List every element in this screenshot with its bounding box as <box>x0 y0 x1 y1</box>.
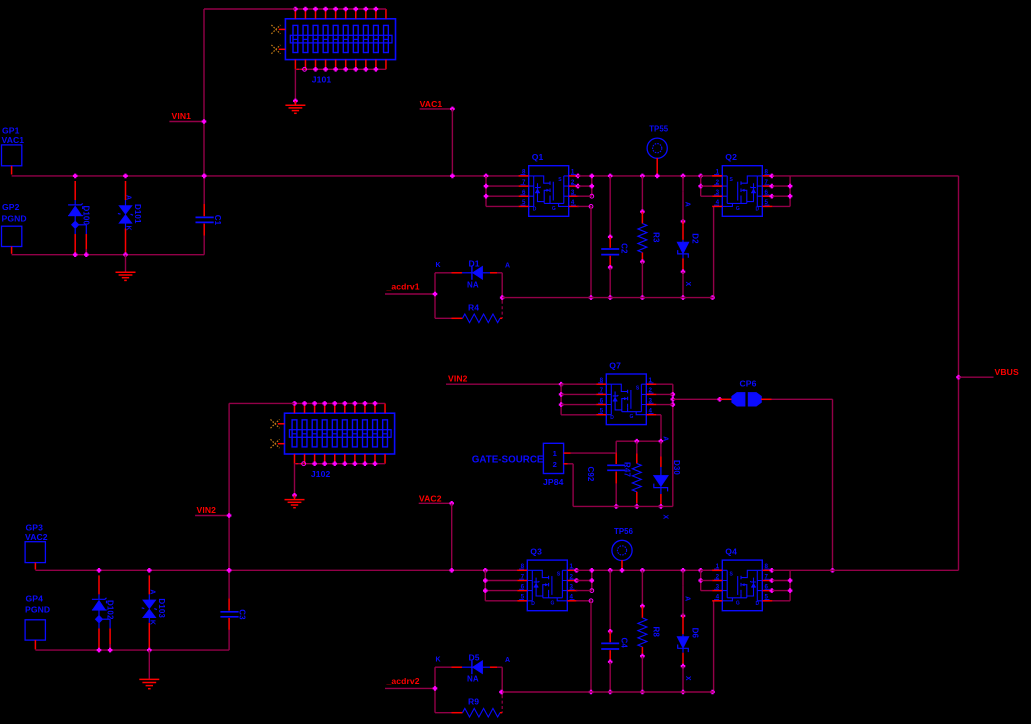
connector J101 body <box>285 19 395 60</box>
node VIN1 rail <box>202 174 207 179</box>
svg-text:D: D <box>610 415 614 421</box>
svg-text:D: D <box>756 207 760 213</box>
pins Q7 right stubs <box>646 383 656 385</box>
pins Q1 right stubs <box>569 175 579 177</box>
TVS diode D103 <box>148 575 150 594</box>
pins Q2 left stubs <box>712 175 722 177</box>
svg-text:Q7: Q7 <box>609 361 621 371</box>
wire VBUS top rail <box>790 175 958 177</box>
wire acdrv2 output rail <box>499 690 504 695</box>
wire Q1 left fan <box>485 176 487 207</box>
wire J101 bottom pin bus <box>295 68 386 70</box>
wire Q2 right fan <box>770 174 775 179</box>
resistor R8 <box>641 570 643 606</box>
gate-source network bottom rail <box>573 505 673 507</box>
zener diode D2 <box>682 176 684 191</box>
wire Q3 left fan <box>484 570 486 601</box>
pins J101 bottom stubs <box>294 60 296 70</box>
node PGND-D103 <box>147 648 152 653</box>
wire acdrv1 right vertical <box>501 273 503 301</box>
wire Q4 pin4 jog to acdrv rail <box>713 601 715 692</box>
wire Q4 right fan <box>770 568 775 573</box>
svg-text:GP1: GP1 <box>2 125 20 135</box>
wire Q2 left fan <box>698 174 703 179</box>
transistor Q4 body <box>722 560 762 611</box>
pins Q1 left stubs <box>519 175 529 177</box>
capacitor C1 <box>203 176 205 204</box>
pins Q4 left stubs <box>712 569 722 571</box>
resistor R4 <box>435 317 452 319</box>
svg-text:GP3: GP3 <box>26 523 44 533</box>
ground below D103 <box>148 650 150 679</box>
svg-text:C1: C1 <box>213 215 222 226</box>
pin wire D101 to PGND <box>125 229 127 254</box>
transistor Q1 body <box>529 166 569 217</box>
svg-text:A: A <box>505 657 510 664</box>
pin wires D102 to PGND <box>98 628 100 649</box>
pins J102 bottom stubs <box>294 454 296 464</box>
zener D6 branch <box>681 568 686 573</box>
svg-text:S: S <box>557 572 561 578</box>
resistor R8 branch <box>640 568 645 573</box>
node Q3 fan <box>483 568 488 573</box>
svg-text:G: G <box>552 206 556 212</box>
svg-text:2: 2 <box>553 460 557 469</box>
wire CP6 to lower rail <box>772 398 833 400</box>
pins J101 top stubs <box>294 9 296 19</box>
pin wire D103 to PGND <box>148 623 150 649</box>
svg-text:_acdrv2: _acdrv2 <box>386 676 420 686</box>
wire acdrv1 output rail <box>500 295 505 300</box>
wire GP4 pin to PGND rail <box>34 640 36 649</box>
node VAC1-D100 <box>73 174 78 179</box>
svg-text:J101: J101 <box>312 75 332 85</box>
wire J101 top pin bus <box>295 8 386 10</box>
wire VIN1 vertical <box>203 9 205 176</box>
svg-text:VAC1: VAC1 <box>420 99 443 109</box>
svg-text:D100: D100 <box>82 206 91 226</box>
wire D100 cathode branch <box>79 224 87 226</box>
svg-text:TP56: TP56 <box>614 527 634 536</box>
wire GP1 pin to VAC1 rail <box>11 166 13 175</box>
wire Q1 pin1 to mid rail <box>576 174 581 179</box>
svg-text:D101: D101 <box>133 204 142 224</box>
wire J102 top bus to VIN2 <box>229 402 294 404</box>
svg-text:A: A <box>148 589 155 594</box>
diode D1 <box>435 272 452 274</box>
svg-text:CP6: CP6 <box>740 379 757 389</box>
wire Q1 pin4 gate drop <box>577 205 591 207</box>
node VAC1-D101 <box>123 174 128 179</box>
wire Q2 pin4 jog to acdrv rail <box>713 206 715 297</box>
wire J101 top bus to VIN1 <box>204 8 295 10</box>
svg-text:VIN2: VIN2 <box>448 374 468 384</box>
no-connect X pins J102 <box>271 419 280 428</box>
node PGND-D100b <box>84 252 89 257</box>
TVS diode D101 <box>125 181 127 200</box>
diode D100 <box>74 181 76 200</box>
wire VAC1 label to rail <box>451 109 453 176</box>
wire GP3 pin to VAC2 rail <box>34 563 36 570</box>
ground below D101 <box>125 255 127 272</box>
svg-text:GP2: GP2 <box>2 202 20 212</box>
wire CP6 left <box>673 398 720 400</box>
wire Q1 pin3 jog <box>577 195 592 197</box>
svg-text:X: X <box>662 515 669 520</box>
wire Q3 pin2 jog <box>574 578 579 583</box>
svg-text:PGND: PGND <box>2 214 27 224</box>
wire VAC1 rail <box>12 175 529 177</box>
wire JP84 pin2 to source <box>564 463 568 465</box>
svg-text:JP84: JP84 <box>543 477 564 487</box>
node VIN2 rail <box>227 568 232 573</box>
capacitor C2 branch <box>608 174 613 179</box>
svg-text:VAC1: VAC1 <box>2 135 25 145</box>
wire VAC2 label to rail <box>451 503 453 570</box>
svg-text:D6: D6 <box>690 628 699 639</box>
svg-text:Q3: Q3 <box>530 547 542 557</box>
svg-text:K: K <box>436 262 441 269</box>
svg-text:D2: D2 <box>690 233 699 244</box>
no-connect X pins J101 <box>271 25 280 34</box>
gate-source network top rail <box>616 440 661 442</box>
svg-text:A: A <box>684 596 691 601</box>
svg-text:X: X <box>684 676 691 681</box>
wire Q3 pin4 gate drop <box>576 600 591 602</box>
pins Q4 right stubs <box>762 569 772 571</box>
resistor R47 branch <box>636 441 638 453</box>
svg-text:S: S <box>558 177 562 183</box>
svg-text:S: S <box>730 572 734 578</box>
svg-text:1: 1 <box>553 449 558 458</box>
pins Q3 right stubs <box>567 569 577 571</box>
svg-text:R8: R8 <box>652 627 661 638</box>
node PGND-D102b <box>108 648 113 653</box>
svg-text:D1: D1 <box>469 258 480 268</box>
resistor R3 branch <box>640 174 645 179</box>
svg-text:TP55: TP55 <box>649 125 669 134</box>
svg-text:K: K <box>436 656 441 663</box>
testpoint TP56 <box>612 540 632 560</box>
svg-text:D102: D102 <box>105 600 114 620</box>
pins Q2 right stubs <box>762 175 772 177</box>
capacitor C92 branch <box>615 441 617 452</box>
svg-text:X: X <box>684 282 691 287</box>
svg-text:A: A <box>684 202 691 207</box>
svg-text:Q1: Q1 <box>532 152 544 162</box>
svg-text:D: D <box>533 207 537 213</box>
wire JP84 pin1 to gate <box>564 452 571 454</box>
wire VIN2 vertical <box>228 403 230 570</box>
zener diode D6 <box>682 570 684 585</box>
svg-text:R9: R9 <box>468 697 479 707</box>
svg-text:C4: C4 <box>620 638 629 649</box>
capacitor C4 <box>609 570 611 631</box>
wire acdrv2 right vertical <box>501 667 503 695</box>
svg-text:J102: J102 <box>311 469 331 479</box>
svg-text:GP4: GP4 <box>26 594 44 604</box>
transistor Q7 body <box>606 374 646 425</box>
svg-text:S: S <box>730 177 734 183</box>
wire D102 cathode branch <box>103 618 111 620</box>
inductor CP6 <box>720 398 732 400</box>
svg-text:R4: R4 <box>468 302 479 312</box>
net label VBUS <box>956 375 961 380</box>
svg-text:D: D <box>756 601 760 607</box>
svg-text:NA: NA <box>467 675 479 684</box>
svg-text:D5: D5 <box>469 653 480 663</box>
wire J102 bottom pin bus <box>295 463 386 465</box>
svg-text:VAC2: VAC2 <box>25 532 48 542</box>
resistor R3 <box>641 176 643 212</box>
svg-text:VIN1: VIN1 <box>172 111 192 121</box>
svg-text:PGND: PGND <box>25 605 50 615</box>
diode D5 <box>435 666 452 668</box>
svg-text:G: G <box>736 600 740 606</box>
svg-text:S: S <box>636 385 640 391</box>
svg-text:Q2: Q2 <box>725 152 737 162</box>
svg-text:C3: C3 <box>238 609 247 620</box>
ground stem J102 <box>294 464 296 496</box>
svg-text:A: A <box>125 195 132 200</box>
svg-text:_acdrv1: _acdrv1 <box>386 282 420 292</box>
resistor R9 <box>435 712 452 714</box>
wire Q1 pin2 jog <box>576 184 581 189</box>
node PGND-D102a <box>97 648 102 653</box>
pins J102 top stubs <box>294 403 296 413</box>
node VAC2-D102 <box>97 568 102 573</box>
wire Q4 left fan <box>698 568 703 573</box>
wire VBUS vertical <box>958 176 960 570</box>
ground J101 <box>285 104 305 106</box>
ground J102 <box>285 499 305 501</box>
svg-text:G: G <box>630 414 634 420</box>
pin wires D100 to PGND <box>74 234 76 254</box>
pins Q3 left stubs <box>517 569 527 571</box>
svg-text:D103: D103 <box>157 598 166 618</box>
node Q1 fan <box>484 174 489 179</box>
node PGND-D100a <box>73 252 78 257</box>
node VAC2-C3 <box>227 568 232 573</box>
wire Q7 gate jog <box>656 414 661 416</box>
svg-text:R3: R3 <box>652 232 661 243</box>
pins Q7 left stubs <box>596 383 606 385</box>
svg-text:NA: NA <box>467 280 479 289</box>
node VAC2-D103 <box>147 568 152 573</box>
svg-text:G: G <box>551 600 555 606</box>
svg-text:A: A <box>661 436 668 441</box>
diode D102 <box>98 575 100 594</box>
testpoint TP55 <box>647 138 667 158</box>
svg-text:G: G <box>736 206 740 212</box>
wire acdrv1 left vertical <box>434 273 436 319</box>
connector J102 body <box>285 413 395 454</box>
svg-text:A: A <box>505 263 510 270</box>
wire VAC2 rail <box>35 569 527 571</box>
capacitor C2 <box>609 176 611 237</box>
wire PGND lower rail <box>35 649 229 651</box>
wire VBUS lower rail <box>790 569 958 571</box>
wire PGND rail <box>12 254 205 256</box>
svg-text:D30: D30 <box>672 460 681 475</box>
connector JP84 <box>543 443 563 473</box>
wire Q7 left fan <box>559 382 564 387</box>
svg-text:Q4: Q4 <box>725 547 737 557</box>
node VAC1-C1 <box>202 174 207 179</box>
wire acdrv2 left vertical <box>434 667 436 713</box>
zener D30 branch <box>660 441 662 456</box>
svg-text:D: D <box>531 601 535 607</box>
capacitor C3 <box>228 570 230 598</box>
svg-text:VAC2: VAC2 <box>419 494 442 504</box>
svg-text:C92: C92 <box>586 467 595 482</box>
transistor Q2 body <box>722 166 762 217</box>
wire GP2 pin to PGND rail <box>11 247 13 254</box>
svg-text:VBUS: VBUS <box>995 367 1019 377</box>
zener D2 branch <box>681 174 686 179</box>
transistor Q3 body <box>527 560 567 611</box>
wire Q3 pin3 jog <box>576 590 592 592</box>
wire Q3 pin1 to mid rail <box>574 568 579 573</box>
svg-text:R47: R47 <box>622 462 631 477</box>
capacitor C4 branch <box>608 568 613 573</box>
wire Q7 source fan <box>656 383 672 385</box>
svg-text:GATE-SOURCE: GATE-SOURCE <box>472 454 544 465</box>
wire J102 top pin bus <box>295 402 386 404</box>
svg-text:C2: C2 <box>620 243 629 254</box>
svg-text:VIN2: VIN2 <box>197 505 217 515</box>
node PGND-D101 <box>123 252 128 257</box>
ground stem J101 <box>294 69 296 101</box>
